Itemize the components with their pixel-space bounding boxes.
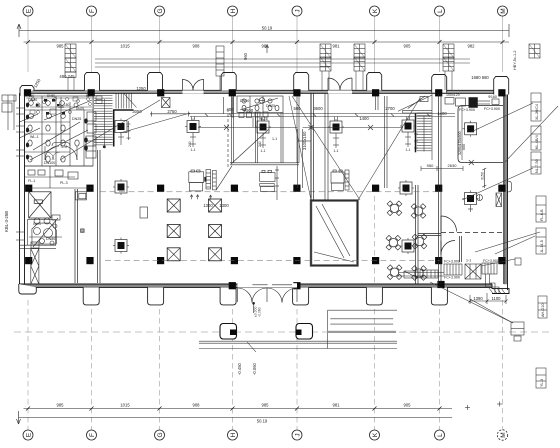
svg-text:G: G	[157, 8, 164, 13]
svg-text:JL-14-5: JL-14-5	[540, 240, 544, 253]
svg-text:DN25: DN25	[266, 104, 275, 108]
svg-text:FC+3.900: FC+3.900	[444, 276, 460, 280]
svg-text:DN50: DN50	[240, 99, 249, 103]
svg-text:1300: 1300	[219, 203, 229, 208]
svg-text:2700: 2700	[385, 106, 395, 111]
svg-text:Φ160: Φ160	[488, 95, 497, 99]
svg-text:XL-30/C4: XL-30/C4	[535, 104, 539, 120]
svg-text:FC+3.900: FC+3.900	[444, 260, 460, 264]
svg-text:1-1: 1-1	[272, 137, 277, 141]
svg-text:1390: 1390	[473, 296, 483, 301]
svg-text:DN100: DN100	[44, 161, 55, 165]
svg-text:1-1: 1-1	[191, 148, 196, 152]
svg-text:-0.060: -0.060	[252, 362, 257, 375]
svg-text:L: L	[437, 9, 444, 13]
svg-text:2630: 2630	[448, 163, 458, 168]
svg-text:WL-6: WL-6	[259, 117, 268, 121]
svg-text:985: 985	[57, 44, 65, 49]
svg-text:100x120: 100x120	[446, 93, 460, 97]
svg-text:DN50: DN50	[47, 94, 55, 98]
svg-text:DN25: DN25	[76, 107, 84, 111]
svg-text:908: 908	[193, 44, 201, 49]
svg-text:3200x150x600: 3200x150x600	[458, 131, 462, 155]
svg-text:FL-8-B: FL-8-B	[540, 209, 544, 221]
svg-text:J: J	[294, 9, 301, 12]
svg-text:240: 240	[258, 141, 262, 147]
svg-text:600: 600	[462, 144, 466, 150]
svg-text:480 245: 480 245	[59, 74, 75, 79]
svg-text:50.19: 50.19	[257, 419, 268, 424]
svg-text:150: 150	[64, 103, 70, 107]
svg-text:1015: 1015	[120, 44, 130, 49]
svg-text:1-1: 1-1	[261, 149, 266, 153]
svg-text:905: 905	[404, 44, 412, 49]
svg-text:DN80: DN80	[46, 237, 55, 241]
svg-text:908: 908	[193, 403, 201, 408]
svg-text:500: 500	[294, 106, 302, 111]
svg-text:3100x150: 3100x150	[302, 131, 307, 150]
svg-text:981: 981	[333, 44, 341, 49]
svg-text:Φ500: Φ500	[243, 108, 254, 113]
svg-text:3150: 3150	[481, 172, 485, 180]
svg-text:K: K	[372, 432, 379, 437]
svg-text:FC+3.900: FC+3.900	[459, 108, 475, 112]
svg-text:H: H	[230, 8, 237, 13]
svg-text:50.19: 50.19	[262, 26, 273, 31]
svg-text:DN50: DN50	[28, 98, 37, 102]
svg-text:WL-1: WL-1	[30, 135, 39, 139]
svg-text:G: G	[157, 432, 164, 437]
svg-text:DN25: DN25	[72, 117, 81, 121]
svg-text:985: 985	[57, 403, 65, 408]
svg-text:1250: 1250	[136, 86, 146, 91]
svg-text:K: K	[372, 8, 379, 13]
svg-text:960: 960	[243, 52, 248, 60]
svg-text:1-1: 1-1	[406, 148, 411, 152]
svg-text:1400: 1400	[359, 116, 369, 121]
svg-text:1100: 1100	[491, 296, 501, 301]
svg-text:1015: 1015	[120, 403, 130, 408]
svg-text:985: 985	[262, 403, 270, 408]
svg-text:1-1: 1-1	[466, 259, 471, 263]
svg-text:YL-3: YL-3	[540, 379, 544, 387]
svg-text:400: 400	[227, 107, 235, 112]
svg-text:FL-1: FL-1	[28, 179, 35, 183]
svg-text:240: 240	[188, 141, 192, 147]
svg-text:GL-1: GL-1	[33, 222, 41, 226]
svg-text:950: 950	[427, 163, 434, 168]
svg-text:KL-4B/4: KL-4B/4	[535, 135, 539, 149]
svg-text:F: F	[89, 9, 96, 13]
svg-text:E: E	[25, 8, 32, 13]
svg-text:1680 680: 1680 680	[471, 75, 489, 80]
svg-text:AH-D10: AH-D10	[541, 303, 545, 317]
svg-text:TL-2: TL-2	[60, 145, 67, 149]
svg-text:905: 905	[404, 403, 412, 408]
svg-text:-0.450: -0.450	[237, 362, 242, 375]
svg-text:982: 982	[468, 44, 476, 49]
svg-text:250: 250	[29, 94, 35, 98]
svg-text:FC+3.900: FC+3.900	[484, 107, 500, 111]
svg-text:3600: 3600	[313, 106, 323, 111]
svg-text:-0.060: -0.060	[258, 307, 262, 317]
svg-text:KBL-3-25B: KBL-3-25B	[4, 211, 9, 232]
svg-text:NL-7-50: NL-7-50	[535, 159, 539, 173]
svg-text:50: 50	[86, 94, 90, 98]
svg-text:1-1: 1-1	[334, 149, 339, 153]
svg-text:FC+3.900: FC+3.900	[483, 259, 499, 263]
svg-text:L: L	[437, 433, 444, 437]
svg-text:981: 981	[333, 403, 341, 408]
svg-text:3050: 3050	[132, 109, 142, 114]
svg-text:M: M	[500, 8, 507, 13]
svg-text:1300: 1300	[203, 203, 213, 208]
svg-text:PL-3: PL-3	[60, 181, 68, 185]
svg-text:M: M	[500, 432, 507, 437]
svg-text:F: F	[89, 433, 96, 437]
svg-text:HBY-5c-1-2: HBY-5c-1-2	[513, 51, 517, 71]
svg-text:J: J	[294, 433, 301, 436]
svg-text:1400: 1400	[437, 111, 447, 116]
svg-text:2750: 2750	[167, 109, 177, 114]
svg-text:H: H	[230, 432, 237, 437]
svg-text:E: E	[25, 432, 32, 437]
